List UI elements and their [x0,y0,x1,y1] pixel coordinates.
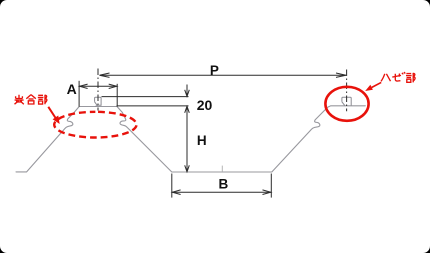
arrowhead H down [185,165,190,172]
right seam cap [342,97,351,105]
left rib center line [97,69,99,111]
dimension line B [172,191,271,193]
svg-text:P: P [210,63,219,78]
B extension line right [270,174,272,198]
svg-text:H: H [197,133,207,148]
svg-text:20: 20 [197,97,213,113]
dimension line P [100,74,346,76]
red label kanji 部 (right) [406,73,415,83]
left seam cap [95,97,102,106]
dimension line A [79,85,117,87]
svg-text:A: A [67,81,77,97]
arrowhead P left [100,73,110,77]
red label kanji 部 (left) [38,95,47,105]
arrowhead P right [336,73,346,77]
red label kanji 嵌 [15,95,24,104]
arrowhead B left [172,190,180,195]
red label katakana ハ [381,74,391,82]
red leader arrow to seam portion [366,82,381,90]
arrowhead A right [109,84,117,88]
A extension line left [78,81,80,107]
right rib center line [346,70,348,112]
pan center tick [221,166,223,172]
B extension line left [171,174,173,198]
red label katakana ゼ [392,72,405,81]
20 extension line bottom [117,105,189,107]
sheet profile outline [16,106,365,172]
20 extension line top [102,96,189,98]
red solid circle (seam portion) [325,87,368,121]
20 upper arrow stem [186,85,188,97]
arrowhead H up [185,106,190,113]
A extension line right [116,84,118,107]
dimension line H (vertical) [186,106,188,172]
red leader arrow to fitting portion [48,107,59,123]
red dashed ellipse (fitting portion) [54,112,136,138]
arrowhead B right [263,190,271,195]
svg-text:B: B [219,177,229,192]
arrowhead A left [80,84,88,88]
arrowhead 20 down [185,90,190,97]
red label kanji 合 [26,95,36,104]
